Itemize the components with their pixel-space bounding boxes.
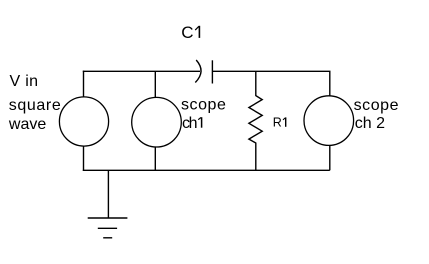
svg-text:R: R	[273, 116, 282, 130]
wire: top rail left segment	[83, 70, 200, 72]
wire: V source bottom stub	[83, 146, 85, 171]
label C1	[181, 23, 199, 42]
wire: top rail right segment	[212, 70, 330, 72]
svg-text:scope: scope	[354, 97, 399, 114]
label ch1	[182, 115, 202, 132]
wire: right vertical from top rail to scope ch2	[329, 71, 331, 96]
scope ch1 circle	[132, 97, 182, 147]
transducer V source circle	[59, 97, 108, 146]
resistor R1	[249, 71, 262, 170]
svg-text:ch 2: ch 2	[355, 115, 385, 132]
svg-text:wave: wave	[8, 116, 46, 133]
wire: left vertical from top rail to V source	[83, 71, 85, 98]
wire: scope ch2 bottom stub	[329, 145, 331, 170]
svg-text:ch: ch	[182, 115, 197, 132]
wire: scope ch1 bottom stub	[154, 147, 156, 171]
ground bar 1	[88, 217, 128, 219]
svg-text:scope: scope	[181, 96, 226, 113]
wire: bottom rail	[83, 169, 330, 171]
ground stem	[107, 170, 109, 218]
svg-text:C: C	[181, 23, 193, 42]
wire: stub from top rail to scope ch1	[154, 71, 156, 98]
label R1	[273, 116, 286, 130]
scope ch2 circle	[304, 96, 354, 146]
svg-text:square: square	[9, 97, 62, 114]
svg-text:V in: V in	[10, 73, 39, 90]
ground bar 3	[103, 237, 112, 239]
capacitor C1	[195, 60, 212, 84]
ground bar 2	[98, 227, 117, 229]
